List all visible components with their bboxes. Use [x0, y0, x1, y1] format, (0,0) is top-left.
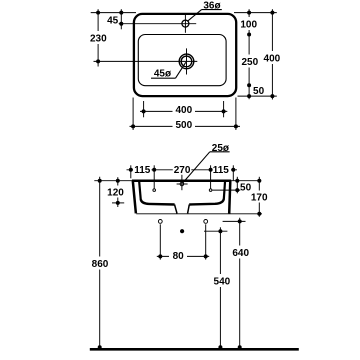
svg-text:250: 250 — [241, 57, 258, 68]
svg-text:120: 120 — [107, 188, 124, 199]
svg-text:540: 540 — [214, 277, 231, 288]
svg-text:400: 400 — [175, 105, 192, 116]
svg-text:115: 115 — [134, 165, 151, 176]
svg-text:860: 860 — [92, 259, 109, 270]
svg-text:500: 500 — [175, 120, 192, 131]
svg-text:400: 400 — [264, 53, 281, 64]
svg-text:115: 115 — [213, 165, 230, 176]
svg-text:45: 45 — [107, 15, 119, 26]
svg-text:230: 230 — [90, 34, 107, 45]
svg-text:270: 270 — [174, 165, 191, 176]
svg-text:640: 640 — [232, 248, 249, 259]
svg-text:100: 100 — [240, 19, 257, 30]
svg-text:170: 170 — [251, 193, 268, 204]
svg-text:80: 80 — [173, 251, 185, 262]
svg-text:50: 50 — [253, 86, 265, 97]
